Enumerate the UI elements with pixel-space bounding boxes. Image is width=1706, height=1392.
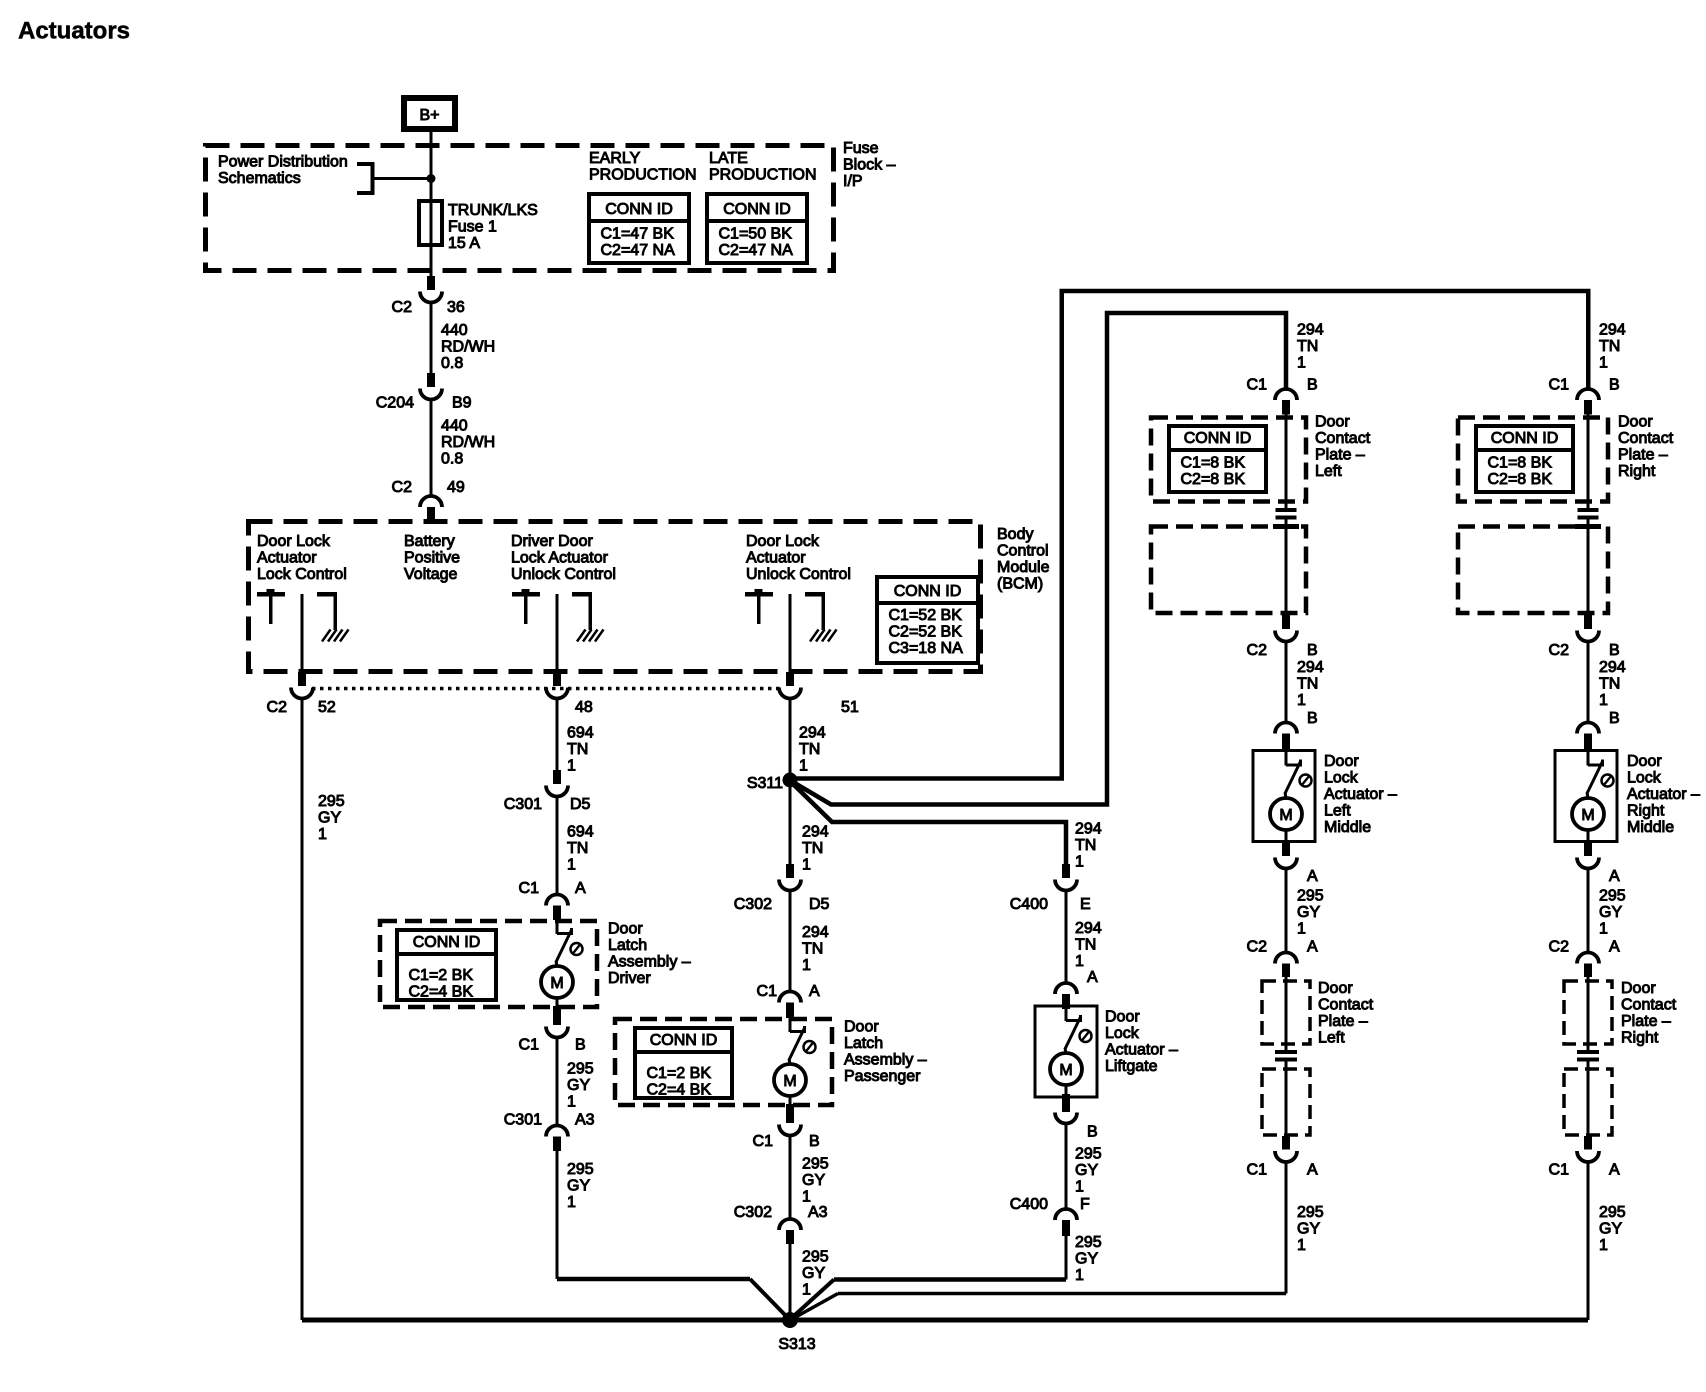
wire liftgate ground run to S313 [791,1280,1066,1319]
wire 295 GY 1 (actuator left middle to C2) [1286,868,1324,953]
svg-text:F: F [1080,1196,1090,1213]
door contact plates symbol upper (left) [1273,508,1299,545]
svg-text:694: 694 [567,725,594,742]
wire left middle ground run to S313 [793,1294,1286,1319]
svg-text:I/P: I/P [843,173,863,190]
wire 294 TN 1 (pin 51 to S311) [790,698,826,775]
svg-text:C2=8 BK: C2=8 BK [1181,471,1246,488]
svg-text:CONN ID: CONN ID [894,583,962,600]
svg-text:M: M [1581,807,1594,824]
svg-text:Schematics: Schematics [218,170,301,187]
label fuse TRUNK/LKS [448,202,538,252]
svg-text:C2=52 BK: C2=52 BK [889,624,963,641]
splice S311 [747,773,798,793]
svg-text:TN: TN [1599,338,1620,355]
BCM lock control output wire [301,594,304,672]
label door contact plate left (lower) [1318,980,1374,1047]
svg-text:1: 1 [1297,355,1306,372]
svg-text:295: 295 [1297,888,1324,905]
connector C2 pin 51 [779,672,859,716]
wire driver ground run to S313 [557,1279,788,1318]
svg-text:CONN ID: CONN ID [1491,430,1559,447]
svg-text:TRUNK/LKS: TRUNK/LKS [448,202,538,219]
svg-text:LATE: LATE [709,150,748,167]
connector C2 pin 48 [546,672,593,716]
svg-text:D5: D5 [570,796,591,813]
svg-text:GY: GY [1297,1221,1320,1238]
junction node on B+ feed [427,174,436,183]
svg-text:M: M [1059,1062,1072,1079]
svg-text:TN: TN [567,741,588,758]
svg-text:C1=8 BK: C1=8 BK [1181,455,1246,472]
door latch assembly passenger dashed box [615,1019,832,1105]
svg-text:M: M [783,1073,796,1090]
conn id table late production [707,194,807,263]
connector pin B (door lock actuator right) [1577,710,1620,750]
wire S311 run B (to left middle door) [792,313,1286,805]
body control module BCM dashed box [249,522,981,672]
svg-text:Positive: Positive [404,550,460,567]
svg-text:295: 295 [1075,1234,1102,1251]
BCM driver unlock output wire [556,594,559,672]
connector C2 pin A (left middle) [1247,939,1318,978]
door jamb empty dashed box upper (right) [1458,527,1608,614]
svg-text:B: B [1087,1124,1098,1141]
fuse block I/P dashed box [206,146,834,271]
svg-text:PRODUCTION: PRODUCTION [709,167,817,184]
svg-text:Actuator –: Actuator – [1627,786,1700,803]
svg-text:A: A [1307,868,1318,885]
label BCM Body Control Module [997,526,1050,593]
svg-text:A: A [575,880,586,897]
svg-text:C1=50 BK: C1=50 BK [719,226,793,243]
svg-text:Assembly –: Assembly – [844,1052,927,1069]
connector C2 pin B (left middle) [1247,615,1318,659]
svg-text:C2=4 BK: C2=4 BK [409,984,474,1001]
svg-text:C3=18 NA: C3=18 NA [889,640,964,657]
BCM unlock output wire [789,594,792,672]
svg-text:1: 1 [1297,921,1306,938]
svg-text:CONN ID: CONN ID [650,1032,718,1049]
svg-text:1: 1 [567,857,576,874]
wire 294 TN 1 (run C to C400) [1075,821,1102,871]
connector C204 pin B9 [376,373,472,412]
label Fuse Block I/P [843,140,896,190]
svg-text:Actuator –: Actuator – [1324,786,1397,803]
svg-text:Left: Left [1324,803,1351,820]
svg-text:TN: TN [567,840,588,857]
svg-text:TN: TN [1297,338,1318,355]
svg-text:1: 1 [1599,1237,1608,1254]
wire 295 GY 1 (C301 to splice run) [557,1151,594,1279]
wire 694 TN 1 (C301 to latch) [557,796,594,895]
svg-text:C2: C2 [392,299,413,316]
bracket to power distribution note [357,162,431,195]
label door contact plate right (upper) [1618,414,1674,481]
svg-text:Lock: Lock [1324,770,1359,787]
svg-text:Passenger: Passenger [844,1068,921,1085]
connector C1 pin A (right) [1549,1136,1620,1179]
svg-text:694: 694 [567,824,594,841]
svg-text:294: 294 [1075,920,1102,937]
svg-text:TN: TN [1075,937,1096,954]
svg-text:C2=47 NA: C2=47 NA [601,242,676,259]
svg-text:C2=8 BK: C2=8 BK [1488,471,1553,488]
svg-text:36: 36 [447,299,465,316]
connector C301 pin A3 [504,1112,595,1152]
door lock actuator left middle box [1253,751,1315,842]
svg-text:B: B [575,1037,586,1054]
svg-text:Actuator: Actuator [746,550,806,567]
connector C1 pin B (driver latch) [519,998,586,1054]
connector pin A (door lock actuator right) [1577,830,1620,885]
svg-text:GY: GY [567,1178,590,1195]
svg-text:RD/WH: RD/WH [441,434,495,451]
wire 294 TN 1 (top, left middle door) [1297,322,1324,372]
svg-text:Plate –: Plate – [1618,447,1668,464]
svg-text:GY: GY [1599,1221,1622,1238]
svg-text:Unlock Control: Unlock Control [511,566,616,583]
wire 440 RD/WH 0.8 (upper) [431,302,495,373]
svg-text:CONN ID: CONN ID [413,934,481,951]
svg-text:TN: TN [802,941,823,958]
wire fuse to connector C2-36 [430,245,433,276]
wire B+ feed into fuse block [430,129,433,201]
svg-text:B: B [1609,710,1620,727]
svg-text:EARLY: EARLY [589,150,641,167]
svg-text:Lock: Lock [1627,770,1662,787]
svg-text:M: M [1279,807,1292,824]
battery symbol B+ [404,98,455,129]
svg-text:C1=52 BK: C1=52 BK [889,607,963,624]
svg-text:Power Distribution: Power Distribution [218,154,348,171]
wire through contact plate box (left) [1285,415,1288,509]
svg-text:1: 1 [318,826,327,843]
connector C1 pin B (passenger latch) [753,1096,820,1150]
svg-text:Block –: Block – [843,157,896,174]
svg-text:295: 295 [1599,1204,1626,1221]
svg-text:1: 1 [799,758,808,775]
svg-text:Right: Right [1621,1030,1659,1047]
wire S311 run C (to liftgate) [792,783,1066,865]
connector C2 pin A (right) [1549,939,1620,978]
wire 294 TN 1 (C302 to passenger latch) [802,924,829,974]
svg-text:49: 49 [447,479,465,496]
svg-text:Lock: Lock [1105,1025,1140,1042]
svg-text:GY: GY [567,1077,590,1094]
svg-text:Latch: Latch [844,1035,883,1052]
svg-text:GY: GY [1599,904,1622,921]
label EARLY PRODUCTION [589,150,697,184]
svg-text:B: B [809,1133,820,1150]
svg-text:TN: TN [1297,676,1318,693]
label door latch assembly passenger [844,1019,927,1086]
svg-text:C1=47 BK: C1=47 BK [601,226,675,243]
svg-text:Actuator: Actuator [257,550,317,567]
wire 295 GY 1 (liftgate to C400) [1066,1123,1102,1209]
BCM connector face dotted line [312,687,782,691]
label door lock actuator right [1627,753,1700,836]
svg-text:CONN ID: CONN ID [723,201,791,218]
connector pin B (liftgate actuator) [1055,1085,1098,1141]
wire 295 GY 1 (right to S313) [1588,1162,1626,1321]
svg-text:Door: Door [1105,1009,1140,1026]
connector C1 pin A (driver latch) [519,880,586,920]
BCM driver unlock T symbol [512,589,540,624]
svg-text:295: 295 [1297,1204,1324,1221]
wire through contact plate box (right) [1587,415,1590,509]
wire inside lower door box (right) [1587,1067,1590,1136]
svg-text:GY: GY [802,1172,825,1189]
svg-text:B: B [1307,642,1318,659]
svg-text:295: 295 [567,1161,594,1178]
wire 440 RD/WH 0.8 (lower) [431,399,495,495]
BCM unlock internal ground [805,592,837,642]
svg-text:Actuators: Actuators [18,18,130,45]
svg-text:B: B [1307,377,1318,394]
svg-text:C2=4 BK: C2=4 BK [647,1082,712,1099]
svg-text:B: B [1609,377,1620,394]
svg-text:C301: C301 [504,1112,542,1129]
svg-text:GY: GY [1075,1162,1098,1179]
svg-text:C2: C2 [392,479,413,496]
svg-text:1: 1 [1599,692,1608,709]
svg-text:Driver Door: Driver Door [511,533,593,550]
svg-text:1: 1 [802,857,811,874]
svg-text:C2: C2 [267,699,288,716]
svg-text:294: 294 [1599,322,1626,339]
wire S311 run A (to right door) [790,291,1588,779]
svg-text:15 A: 15 A [448,235,480,252]
svg-text:0.8: 0.8 [441,355,463,372]
svg-text:1: 1 [802,1189,811,1206]
svg-text:1: 1 [1297,692,1306,709]
svg-text:A: A [1087,969,1098,986]
conn id table passenger latch [635,1028,732,1099]
svg-text:Left: Left [1315,463,1342,480]
svg-text:Left: Left [1318,1030,1345,1047]
svg-text:Control: Control [997,543,1049,560]
svg-text:Liftgate: Liftgate [1105,1058,1158,1075]
svg-text:TN: TN [1599,676,1620,693]
svg-text:Body: Body [997,526,1033,543]
svg-text:0.8: 0.8 [441,451,463,468]
label door latch assembly driver [608,921,691,988]
svg-text:1: 1 [802,957,811,974]
svg-text:Door: Door [1627,753,1662,770]
svg-text:C400: C400 [1010,1196,1048,1213]
svg-text:1: 1 [802,1282,811,1299]
svg-text:Plate –: Plate – [1621,1013,1671,1030]
svg-text:Middle: Middle [1324,819,1371,836]
connector C2 pin 36 [392,276,465,316]
svg-text:C1: C1 [757,983,778,1000]
title Actuators [18,18,130,45]
svg-text:C1: C1 [519,880,540,897]
svg-text:C2: C2 [1247,642,1268,659]
connector C2 pin B (right) [1549,615,1620,659]
svg-text:Middle: Middle [1627,819,1674,836]
svg-text:Door: Door [1318,980,1353,997]
svg-text:Assembly –: Assembly – [608,954,691,971]
svg-text:C1=2 BK: C1=2 BK [647,1065,712,1082]
door latch assembly driver dashed box [380,921,597,1007]
conn id table BCM [877,577,978,663]
svg-text:Actuator –: Actuator – [1105,1042,1178,1059]
splice S313 [778,1312,815,1353]
door jamb empty dashed box lower (right) [1564,1069,1612,1135]
svg-text:A3: A3 [808,1204,828,1221]
door jamb empty dashed box lower (left) [1262,1069,1310,1135]
svg-text:RD/WH: RD/WH [441,339,495,356]
wire inside door box (left) [1285,529,1288,616]
svg-text:Door: Door [1324,753,1359,770]
svg-text:Door Lock: Door Lock [746,533,820,550]
svg-text:B: B [1307,710,1318,727]
connector C1 pin B (door contact plate right) [1549,377,1620,415]
svg-text:1: 1 [567,758,576,775]
svg-text:440: 440 [441,322,468,339]
svg-text:1: 1 [567,1094,576,1111]
svg-text:B+: B+ [419,107,439,124]
svg-text:Contact: Contact [1621,997,1677,1014]
svg-text:Door: Door [608,921,643,938]
wire 694 TN 1 (BCM to C301) [557,698,594,775]
svg-text:S311: S311 [747,775,783,792]
wire 295 GY lock control (left drop) [302,698,345,1320]
svg-text:C400: C400 [1010,896,1048,913]
svg-text:A3: A3 [575,1112,595,1129]
svg-text:1: 1 [1599,921,1608,938]
svg-text:C1: C1 [753,1133,774,1150]
door contact plates symbol lower (right) [1577,1050,1599,1069]
label battery positive voltage [404,533,460,583]
svg-text:GY: GY [1297,904,1320,921]
svg-text:Contact: Contact [1618,430,1674,447]
svg-text:C1: C1 [1549,1162,1570,1179]
connector C400 pin F [1010,1196,1090,1236]
svg-text:E: E [1080,896,1091,913]
svg-text:294: 294 [1297,659,1324,676]
label LATE PRODUCTION [709,150,817,184]
svg-text:C1: C1 [1247,1162,1268,1179]
svg-text:C2: C2 [1549,642,1570,659]
svg-text:TN: TN [799,741,820,758]
wire 295 GY 1 (C400 to S313 run) [1066,1234,1102,1284]
note Power Distribution Schematics [218,154,348,188]
BCM unlock T symbol [745,589,773,624]
switch and motor M (door lock actuator right) [1572,752,1614,831]
wire inside lower door box (left) [1285,1067,1288,1136]
svg-text:294: 294 [1599,659,1626,676]
svg-text:D5: D5 [809,896,830,913]
conn id table door contact plate right [1476,426,1573,492]
connector C1 pin B (door contact plate left) [1247,377,1318,415]
svg-text:295: 295 [1599,888,1626,905]
svg-text:295: 295 [802,1156,829,1173]
conn id table door contact plate left [1169,426,1266,492]
door contact plates symbol upper (right) [1575,508,1601,545]
connector pin B (door lock actuator left middle) [1275,710,1318,750]
switch and motor M (door lock actuator left middle) [1270,752,1312,831]
svg-text:Latch: Latch [608,937,647,954]
svg-text:GY: GY [1075,1251,1098,1268]
svg-text:Plate –: Plate – [1315,447,1365,464]
label driver door lock actuator unlock control [511,533,616,583]
svg-text:A: A [1307,939,1318,956]
svg-text:TN: TN [1075,837,1096,854]
svg-text:C2: C2 [1549,939,1570,956]
conn id table early production [589,194,689,263]
svg-text:C1=2 BK: C1=2 BK [409,967,474,984]
wire 295 GY 1 (actuator right to C2) [1588,868,1626,953]
svg-text:Door: Door [1621,980,1656,997]
wire 295 GY 1 (C302 to S313) [790,1244,829,1320]
switch and motor M passenger latch [774,1018,816,1096]
svg-text:C1=8 BK: C1=8 BK [1488,455,1553,472]
svg-text:Voltage: Voltage [404,566,457,583]
svg-text:1: 1 [1075,1267,1084,1284]
fuse F1 TRUNK/LKS 15A [419,201,442,245]
svg-text:295: 295 [318,793,345,810]
svg-text:294: 294 [1075,821,1102,838]
BCM lock control driver T symbol [257,589,285,624]
svg-text:Lock Actuator: Lock Actuator [511,550,609,567]
wire 294 TN 1 (C400 to liftgate actuator) [1066,891,1102,983]
svg-text:295: 295 [802,1249,829,1266]
svg-text:A: A [1307,1162,1318,1179]
svg-text:(BCM): (BCM) [997,576,1043,593]
svg-text:GY: GY [318,810,341,827]
svg-text:C2: C2 [1247,939,1268,956]
connector C302 pin D5 [734,864,830,913]
connector pin A (liftgate actuator) [1055,969,1098,1009]
label door contact plate right (lower) [1621,980,1677,1047]
switch and motor M driver latch [541,920,583,998]
wire ground bus to S313 (bottom) [302,1318,1588,1323]
wire through lower contact box (right) [1587,977,1590,1050]
wire 295 GY 1 (left middle to S313) [1286,1162,1324,1294]
svg-text:Fuse 1: Fuse 1 [448,219,497,236]
connector C400 pin E [1010,864,1091,913]
svg-text:Plate –: Plate – [1318,1013,1368,1030]
svg-text:PRODUCTION: PRODUCTION [589,167,697,184]
door lock actuator right box [1555,751,1617,842]
connector C1 pin A (left middle) [1247,1136,1318,1179]
svg-text:CONN ID: CONN ID [1184,430,1252,447]
svg-text:C204: C204 [376,395,414,412]
door contact plates symbol lower (left) [1275,1050,1297,1069]
svg-text:48: 48 [575,699,593,716]
connector C2 pin 49 [392,479,465,521]
svg-text:Door: Door [1618,414,1653,431]
label door lock actuator liftgate [1105,1009,1178,1076]
svg-text:Battery: Battery [404,533,455,550]
svg-text:A: A [1609,939,1620,956]
connector C302 pin A3 [734,1204,828,1244]
door contact plate left upper dashed box [1151,418,1306,502]
conn id table driver latch [397,930,496,1001]
svg-text:A: A [809,983,820,1000]
label door lock actuator lock control [257,533,347,583]
svg-text:TN: TN [802,840,823,857]
door contact plate right upper dashed box [1458,418,1608,502]
svg-text:B: B [1609,642,1620,659]
svg-text:440: 440 [441,418,468,435]
svg-text:GY: GY [802,1265,825,1282]
BCM driver unlock internal ground [572,592,604,642]
wire 294 TN 1 (S311 to C302) [790,787,829,874]
